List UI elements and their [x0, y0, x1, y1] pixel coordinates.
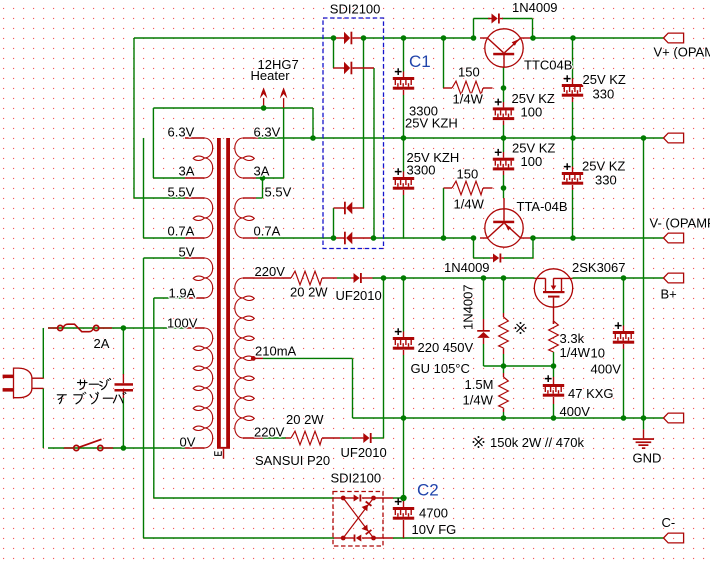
svg-text:4700: 4700: [419, 506, 448, 521]
svg-text:330: 330: [593, 87, 615, 102]
svg-text:3A: 3A: [254, 164, 270, 179]
svg-text:150k 2W // 470k: 150k 2W // 470k: [490, 435, 584, 450]
svg-text:47 KXG: 47 KXG: [568, 386, 614, 401]
svg-text:C2: C2: [417, 481, 439, 500]
svg-text:1N4009: 1N4009: [444, 260, 490, 275]
svg-text:V+ (OPAMP): V+ (OPAMP): [654, 45, 710, 60]
svg-text:220V: 220V: [254, 425, 285, 440]
svg-text:B+: B+: [661, 287, 677, 302]
svg-text:1/4W: 1/4W: [453, 92, 484, 107]
svg-text:10: 10: [591, 346, 605, 361]
svg-text:Heater: Heater: [251, 68, 291, 83]
svg-text:20 2W: 20 2W: [290, 285, 328, 300]
svg-text:3A: 3A: [179, 164, 195, 179]
svg-text:2A: 2A: [94, 336, 110, 351]
svg-text:330: 330: [595, 173, 617, 188]
svg-text:TTA-04B: TTA-04B: [517, 199, 568, 214]
svg-text:1.9A: 1.9A: [169, 286, 196, 301]
svg-text:6.3V: 6.3V: [168, 125, 195, 140]
svg-text:210mA: 210mA: [255, 344, 297, 359]
svg-text:20 2W: 20 2W: [286, 412, 324, 427]
svg-text:V- (OPAMP): V- (OPAMP): [650, 216, 710, 231]
svg-text:5V: 5V: [179, 245, 195, 260]
svg-text:0.7A: 0.7A: [168, 224, 195, 239]
svg-text:GND: GND: [633, 451, 662, 466]
svg-text:220V: 220V: [255, 264, 286, 279]
svg-text:25V KZ: 25V KZ: [582, 159, 625, 174]
svg-text:6.3V: 6.3V: [254, 125, 281, 140]
svg-text:100: 100: [521, 154, 543, 169]
svg-text:400V: 400V: [591, 362, 622, 377]
svg-text:5.5V: 5.5V: [265, 185, 292, 200]
svg-text:SDI2100: SDI2100: [330, 2, 381, 17]
svg-text:SDI2100: SDI2100: [331, 471, 382, 486]
svg-text:SANSUI P20: SANSUI P20: [255, 453, 330, 468]
svg-text:C1: C1: [409, 52, 431, 71]
svg-text:1/4W: 1/4W: [560, 345, 591, 360]
svg-text:GU 105°C: GU 105°C: [411, 361, 470, 376]
svg-text:2SK3067: 2SK3067: [572, 260, 626, 275]
svg-text:10V FG: 10V FG: [412, 522, 457, 537]
svg-text:0V: 0V: [180, 435, 196, 450]
svg-text:25V KZH: 25V KZH: [405, 116, 458, 131]
svg-text:400V: 400V: [560, 404, 591, 419]
svg-text:3.3k: 3.3k: [560, 331, 585, 346]
svg-text:1/4W: 1/4W: [454, 197, 485, 212]
svg-text:UF2010: UF2010: [336, 288, 382, 303]
svg-text:TTC04B: TTC04B: [524, 58, 572, 73]
svg-text:1.5M: 1.5M: [465, 377, 494, 392]
svg-text:220 450V: 220 450V: [418, 340, 474, 355]
svg-text:100V: 100V: [167, 316, 198, 331]
svg-text:5.5V: 5.5V: [168, 185, 195, 200]
svg-text:UF2010: UF2010: [341, 445, 387, 460]
svg-text:1/4W: 1/4W: [463, 393, 494, 408]
svg-text:C-: C-: [662, 515, 676, 530]
svg-text:3300: 3300: [407, 163, 436, 178]
svg-text:0.7A: 0.7A: [254, 224, 281, 239]
svg-text:150: 150: [457, 167, 479, 182]
svg-text:1N4009: 1N4009: [512, 0, 558, 15]
svg-text:1N4007: 1N4007: [461, 284, 476, 330]
svg-text:150: 150: [458, 65, 480, 80]
svg-text:25V KZ: 25V KZ: [583, 72, 626, 87]
svg-text:100: 100: [521, 105, 543, 120]
